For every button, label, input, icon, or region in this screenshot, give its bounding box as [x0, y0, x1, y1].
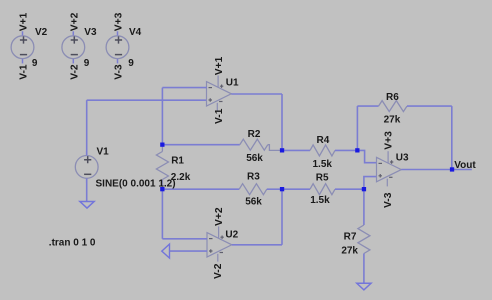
svg-text:V-3: V-3 [383, 192, 394, 208]
svg-text:U3: U3 [396, 152, 409, 163]
voltage source V1 [75, 151, 98, 183]
op-amp U3 [377, 151, 402, 186]
svg-text:1.5k: 1.5k [313, 159, 333, 170]
op-amp U2 [207, 226, 232, 261]
wire U2 output riser [281, 189, 283, 245]
resistor R4 [310, 145, 335, 156]
wire U1 output drop to R2/R4 node [281, 94, 283, 150]
svg-text:27k: 27k [384, 114, 401, 125]
wire ground to U2 plus input [170, 250, 208, 252]
svg-text:U2: U2 [225, 229, 238, 240]
svg-text:R3: R3 [247, 171, 260, 182]
resistor R6 [379, 101, 408, 112]
svg-text:SINE(0 0.001 1.2): SINE(0 0.001 1.2) [96, 178, 176, 189]
svg-text:1.5k: 1.5k [310, 195, 330, 206]
wire U1 minus input horizontal [162, 87, 206, 89]
svg-text:56k: 56k [246, 153, 263, 164]
svg-text:9: 9 [128, 58, 134, 69]
svg-text:V4: V4 [129, 27, 142, 38]
svg-text:V+3: V+3 [384, 131, 395, 150]
wire V1 bottom to ground [86, 179, 88, 202]
svg-text:U1: U1 [226, 77, 239, 88]
svg-text:.tran 0 1 0: .tran 0 1 0 [49, 237, 96, 248]
svg-text:V-1: V-1 [19, 64, 30, 80]
svg-text:V1: V1 [97, 147, 110, 158]
wire R5 to junction [335, 188, 364, 190]
node junction R2/R4/U1out [280, 148, 284, 152]
svg-text:V2: V2 [35, 27, 48, 38]
node junction R1 top [160, 143, 164, 147]
svg-text:R6: R6 [386, 92, 399, 103]
wire U3 output to Vout [401, 169, 472, 171]
node junction Vout [450, 167, 454, 171]
wire V1 top riser [86, 100, 88, 155]
svg-text:9: 9 [32, 58, 38, 69]
svg-text:2.2k: 2.2k [171, 172, 191, 183]
resistor R2 [240, 139, 282, 150]
wire U1 output horizontal [231, 93, 282, 95]
svg-text:V+3: V+3 [114, 12, 125, 31]
svg-text:V+2: V+2 [214, 207, 225, 226]
wire U2 output horizontal [232, 244, 282, 246]
wire to R6 [357, 105, 378, 107]
svg-text:V+1: V+1 [214, 56, 225, 75]
wire node B to R2 [162, 144, 239, 146]
ground below R7 [357, 283, 371, 290]
wire R4 to feedback node [335, 149, 357, 151]
wire R7 to ground [363, 254, 365, 284]
svg-text:V+1: V+1 [19, 12, 30, 31]
op-amp U1 [207, 75, 232, 110]
ground flag at U2 plus input [162, 244, 170, 258]
svg-text:9: 9 [84, 58, 90, 69]
node junction R4/R6/U3minus [355, 148, 359, 152]
wire junction to R5 [282, 188, 310, 190]
svg-text:V-3: V-3 [114, 64, 125, 80]
wire V1 to U1 plus input [87, 99, 207, 101]
svg-text:V3: V3 [84, 27, 97, 38]
wire junction down to R7 [363, 189, 365, 225]
svg-text:R4: R4 [317, 135, 330, 146]
node junction R3/R5/U2out [280, 187, 284, 191]
wire R3 to junction [267, 188, 282, 190]
resistor R5 [310, 184, 335, 195]
wire U1 minus input vertical to node [161, 88, 163, 145]
wire node C to R3 [162, 188, 239, 190]
svg-text:V-2: V-2 [213, 263, 224, 279]
wire U2 minus horizontal [162, 238, 207, 240]
resistor R3 [239, 184, 267, 195]
svg-text:R5: R5 [316, 172, 329, 183]
resistor R7 [358, 225, 370, 254]
voltage source V2 [11, 31, 34, 63]
svg-text:V-1: V-1 [214, 108, 225, 124]
resistor R1 [156, 145, 168, 190]
svg-text:R2: R2 [248, 129, 261, 140]
svg-text:R7: R7 [344, 231, 357, 242]
wire feedback riser left [356, 106, 358, 150]
wire riser to U3 plus input [364, 177, 377, 190]
svg-text:V-2: V-2 [69, 64, 80, 80]
svg-text:Vout: Vout [454, 160, 476, 171]
wire R6 to right corner [407, 105, 452, 107]
node junction R5/R7/U3plus [362, 187, 366, 191]
svg-text:56k: 56k [245, 197, 262, 208]
voltage source V3 [62, 31, 85, 63]
ground below V1 [80, 202, 94, 209]
wire jog to U3 minus input [357, 150, 376, 162]
svg-text:V+2: V+2 [69, 12, 80, 31]
wire junction to R4 [282, 149, 310, 151]
svg-text:R1: R1 [171, 155, 184, 166]
wire U2 minus vertical [161, 189, 163, 239]
node junction R1 bottom [160, 187, 164, 191]
wire feedback drop to Vout [451, 106, 453, 169]
voltage source V4 [106, 31, 129, 63]
svg-text:27k: 27k [341, 246, 358, 257]
